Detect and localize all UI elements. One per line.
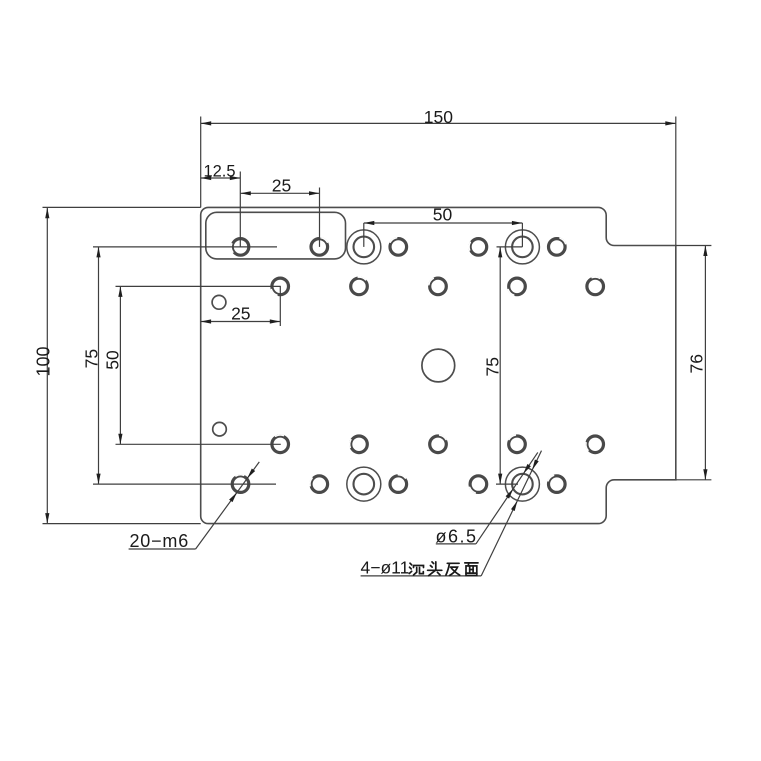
- svg-text:12.5: 12.5: [203, 162, 235, 180]
- svg-text:25: 25: [272, 176, 291, 196]
- svg-text:20−m6: 20−m6: [130, 531, 190, 551]
- svg-text:25: 25: [231, 303, 250, 323]
- svg-text:150: 150: [424, 107, 453, 127]
- svg-text:50: 50: [433, 205, 453, 225]
- svg-text:4−ø11: 4−ø11: [361, 558, 410, 578]
- svg-text:75: 75: [483, 357, 503, 376]
- svg-text:100: 100: [33, 346, 53, 376]
- svg-text:75: 75: [82, 349, 102, 368]
- svg-text:ø6.5: ø6.5: [436, 527, 478, 547]
- svg-text:76: 76: [687, 354, 707, 373]
- svg-text:50: 50: [102, 350, 122, 370]
